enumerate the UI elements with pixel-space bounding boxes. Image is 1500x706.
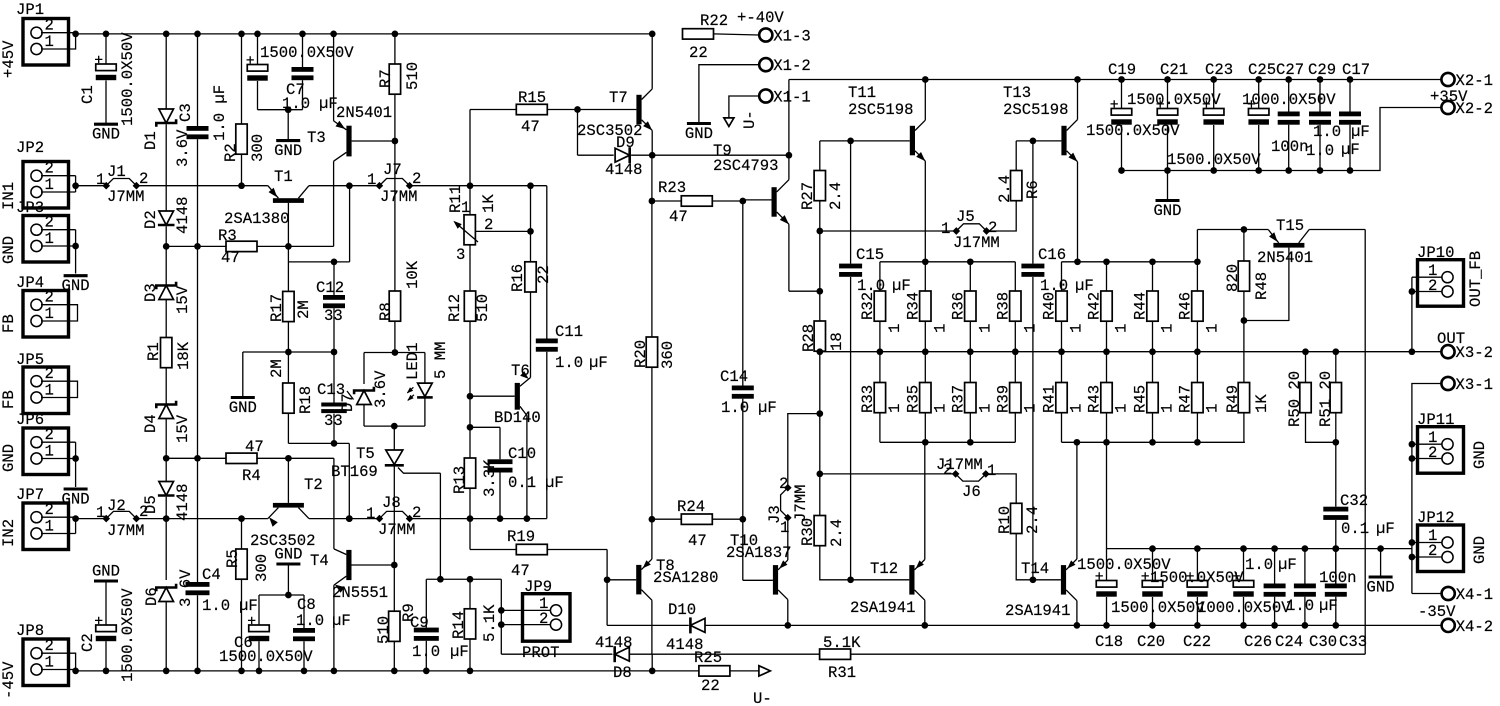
wire to D5 — [165, 458, 167, 481]
junction C18 / V- rail — [1103, 622, 1110, 629]
svg-text:1: 1 — [1159, 404, 1177, 413]
svg-text:18K: 18K — [175, 341, 193, 370]
ground JP3 — [64, 274, 88, 277]
junction T11 emitter / bank1 top wire — [922, 258, 929, 265]
wire to D6 — [165, 519, 167, 580]
svg-text:J7MM: J7MM — [107, 188, 144, 206]
terminal X1-1 — [759, 89, 772, 102]
junction R46 / OUT rail — [1194, 348, 1201, 355]
svg-text:R37: R37 — [949, 385, 967, 413]
capacitor C4 — [186, 582, 210, 595]
resistor R16 — [525, 262, 536, 292]
svg-text:T7: T7 — [609, 89, 628, 107]
wire C15 top lead (crosses J5 wire) — [850, 141, 852, 264]
junction C2 / -45V rail — [103, 668, 110, 675]
svg-text:µF: µF — [1341, 141, 1360, 159]
svg-text:1: 1 — [367, 171, 376, 189]
wire C26 top lead — [1243, 549, 1245, 581]
transistor T2 (2SC3502 NPN) — [268, 458, 309, 526]
wire C18 bottom lead — [1106, 597, 1108, 625]
diode D6 (3.6V zener) — [156, 584, 176, 602]
svg-text:47: 47 — [688, 532, 707, 550]
wire R28 top lead — [819, 291, 821, 321]
wire J8 pad2 right — [410, 518, 547, 520]
wire +40V collector rail — [789, 79, 1442, 81]
wire PROT horizontal — [426, 578, 501, 580]
wire down to D10 wire — [606, 580, 608, 626]
wire C33 bottom lead — [1335, 597, 1337, 626]
wire C19 top lead — [1121, 80, 1123, 109]
svg-text:1: 1 — [886, 404, 904, 413]
svg-text:2.4: 2.4 — [996, 175, 1014, 203]
resistor R30 — [814, 516, 825, 546]
junction T7 / rail — [649, 31, 656, 38]
wire R17/C12 ground wire — [243, 351, 334, 353]
svg-text:C22: C22 — [1183, 633, 1211, 651]
wire to C4 (crosses IN2) — [197, 458, 199, 582]
wire bank1 top wire — [880, 261, 1015, 263]
wire column — [469, 396, 471, 427]
wire cap bank gnd wire to X2-2 — [1122, 108, 1442, 171]
wire OUT rail — [820, 351, 1442, 353]
wire T13 emitter to bank2 top — [1077, 162, 1079, 262]
wire R12 bottom to T6 base — [469, 321, 471, 396]
jumper J7 — [379, 179, 409, 186]
transistor T3 (2N5401 PNP) — [334, 121, 395, 162]
junction C30 / V- rail — [1302, 622, 1309, 629]
svg-text:1: 1 — [45, 305, 54, 323]
svg-text:1: 1 — [1021, 324, 1039, 333]
wire C13 bottom lead — [333, 414, 335, 444]
svg-text:T4: T4 — [310, 552, 329, 570]
wire +45V rail — [76, 33, 653, 35]
supply arrow U- at X1-1 — [724, 118, 734, 127]
wire D7 top lead — [363, 353, 365, 385]
svg-text:R38: R38 — [994, 292, 1012, 320]
svg-text:X4-1: X4-1 — [1456, 586, 1493, 604]
ground JP6 — [64, 487, 88, 490]
svg-text:R39: R39 — [994, 385, 1012, 413]
svg-text:FB: FB — [0, 314, 18, 333]
svg-text:R42: R42 — [1086, 292, 1104, 320]
wire to -45V rail — [651, 654, 653, 671]
wire C15 bottom to T12 base (crosses rails) — [850, 277, 852, 580]
junction C23 / gnd wire — [1210, 167, 1217, 174]
junction R8 / D7-LED1 loop — [392, 349, 399, 356]
resistor R40 — [1056, 291, 1067, 321]
wire T14 emitter to bank2 bottom — [1076, 442, 1078, 559]
wire T12 emitter to bank1 bottom — [924, 442, 926, 559]
svg-text:X1-2: X1-2 — [773, 57, 810, 75]
svg-text:X3-1: X3-1 — [1456, 376, 1493, 394]
resistor R2 — [236, 124, 247, 154]
svg-text:J1: J1 — [107, 163, 126, 181]
resistor R15 — [516, 104, 547, 114]
svg-text:U-: U- — [753, 690, 772, 706]
wire R18 bottom lead — [287, 413, 289, 443]
junction column / R4 wire — [194, 455, 201, 462]
wire C16 top lead (crosses J5 wire) — [1032, 141, 1034, 264]
resistor R24 — [681, 514, 712, 524]
ground C7 — [276, 139, 300, 142]
svg-text:C23: C23 — [1205, 61, 1233, 79]
transistor T1 (2SA1380 PNP) — [268, 186, 309, 247]
wire J3 pad2 to driver column — [788, 414, 820, 488]
wire C14 column lower — [742, 399, 744, 520]
svg-text:R16: R16 — [509, 264, 527, 292]
ground cap bank top — [1156, 199, 1180, 202]
wire C1 bottom lead — [105, 81, 107, 125]
wire R35 bottom lead — [924, 413, 926, 443]
wire C32 bottom lead — [1335, 520, 1337, 588]
wire R37 bottom lead — [969, 413, 971, 443]
svg-text:X2-2: X2-2 — [1456, 100, 1493, 118]
connector JP5 (FB) — [23, 367, 69, 414]
wire loop bottom — [364, 425, 425, 427]
svg-text:BD140: BD140 — [494, 409, 541, 427]
wire JP3 pins to ground — [75, 230, 77, 274]
svg-text:1: 1 — [1021, 404, 1039, 413]
svg-text:OUT: OUT — [1437, 330, 1465, 348]
junction C24 / V- rail — [1271, 622, 1278, 629]
wire T5 gate to PROT wire — [439, 473, 441, 579]
wire C21 bottom lead — [1167, 125, 1169, 171]
resistor R38 — [1010, 291, 1021, 321]
wire IN2 to J2 pad1 — [76, 518, 107, 520]
junction C33 / gnd wire — [1332, 545, 1339, 552]
svg-text:C11: C11 — [555, 323, 583, 341]
svg-text:C15: C15 — [856, 246, 884, 264]
svg-text:1: 1 — [45, 176, 54, 194]
junction R51 / OUT rail — [1332, 348, 1339, 355]
junction C19 / gnd wire — [1118, 167, 1125, 174]
svg-text:2SA1380: 2SA1380 — [224, 210, 290, 228]
wire C12 bottom lead — [333, 308, 335, 352]
junction T3 emitter / rail — [330, 31, 337, 38]
svg-text:2: 2 — [988, 219, 997, 237]
wire bank2 bottom wire — [1062, 441, 1245, 443]
junction JP10 / OUT rail — [1409, 348, 1416, 355]
wire R2 top lead — [241, 34, 243, 124]
junction JP6 pin1 — [72, 455, 79, 462]
connector JP12 (GND) — [1418, 525, 1464, 572]
junction C29 / +35V rail — [1317, 76, 1324, 83]
wire -45V rail (left of R25) — [76, 670, 699, 672]
svg-text:1: 1 — [1159, 324, 1177, 333]
wire R7 top lead — [394, 34, 396, 64]
junction D9 wire / X1 riser / T9 collector — [786, 152, 793, 159]
junction R27-R28 — [816, 288, 823, 295]
svg-text:510: 510 — [404, 62, 422, 90]
diode D2 (4148) — [158, 211, 175, 225]
svg-text:2: 2 — [45, 426, 54, 444]
svg-text:R47: R47 — [1176, 385, 1194, 413]
svg-text:R3: R3 — [218, 227, 237, 245]
junction C33 / V- rail — [1332, 622, 1339, 629]
svg-text:2: 2 — [412, 504, 421, 522]
wire R9 bottom lead — [393, 641, 395, 671]
junction R4 / T2 base — [285, 455, 292, 462]
wire R45 bottom lead — [1152, 413, 1154, 443]
svg-text:R23: R23 — [658, 179, 686, 197]
wire R47 top lead — [1196, 352, 1198, 383]
svg-text:300: 300 — [253, 554, 271, 582]
svg-text:1: 1 — [780, 519, 789, 537]
wire R25 to V- arrow — [730, 670, 759, 672]
svg-text:D8: D8 — [613, 664, 632, 682]
svg-text:1: 1 — [45, 442, 54, 460]
wire R31 right wire — [850, 653, 1365, 655]
wire C3 top lead — [197, 34, 199, 126]
svg-text:J7: J7 — [383, 161, 402, 179]
transistor T4 (2N5551 NPN) — [334, 549, 394, 593]
svg-text:R32: R32 — [859, 292, 877, 320]
wire J1 pad2 to T1 emitter — [136, 185, 268, 187]
resistor R9 — [389, 611, 400, 641]
svg-text:100n: 100n — [1319, 569, 1356, 587]
wire JP10 pin2 — [1412, 291, 1442, 293]
junction JP2 / IN1 wire — [72, 182, 79, 189]
wire T4 collector riser (crosses IN2) — [333, 458, 335, 549]
wire JP10 pin1 — [1412, 276, 1442, 278]
svg-text:2: 2 — [45, 214, 54, 232]
wire D8 to T8 collector — [630, 653, 653, 655]
svg-text:R41: R41 — [1041, 385, 1059, 413]
wire R20 bottom to R24 — [651, 367, 653, 519]
wire R10 to T14 base — [1016, 534, 1061, 580]
connector JP6 (GND) — [23, 428, 69, 475]
diode D1 (3.6V zener) — [156, 109, 176, 127]
wire R39 bottom lead — [1014, 413, 1016, 443]
svg-text:C19: C19 — [1108, 61, 1136, 79]
wire JP1 pin2 to +45V rail — [41, 32, 76, 34]
svg-text:JP5: JP5 — [16, 351, 44, 369]
svg-text:1: 1 — [1203, 324, 1221, 333]
junction C4 / -45V rail — [194, 668, 201, 675]
junction R7 / +45V rail — [392, 31, 399, 38]
wire R23 right lead — [712, 200, 743, 202]
junction riser / IN2 wire — [346, 515, 353, 522]
svg-text:2: 2 — [45, 160, 54, 178]
svg-text:1: 1 — [1113, 404, 1131, 413]
svg-text:R31: R31 — [828, 664, 856, 682]
svg-text:1: 1 — [987, 462, 996, 480]
svg-text:µF: µF — [319, 95, 338, 113]
ground R17/C12 — [231, 396, 255, 399]
junction T12 / V- rail — [921, 622, 928, 629]
resistor R45 — [1147, 383, 1158, 413]
wire R44 bottom lead — [1152, 321, 1154, 352]
resistor R6 — [1011, 171, 1022, 201]
junction T13 emitter / bank2 top wire — [1074, 258, 1081, 265]
wire R34 top lead — [924, 262, 926, 291]
wire T5 cathode to R9 (crosses J8) — [393, 465, 395, 611]
resistor R42 — [1101, 291, 1112, 321]
svg-text:1000.0X50V: 1000.0X50V — [1197, 599, 1291, 617]
junction riser to C18 wire — [1103, 439, 1110, 446]
wire C16 bottom to T14 base (crosses rails) — [1032, 277, 1034, 580]
svg-text:2: 2 — [1428, 277, 1437, 295]
resistor R28 — [814, 321, 825, 351]
wire D1-D2 — [165, 125, 167, 212]
jumper J3 — [781, 488, 788, 518]
svg-text:R8: R8 — [377, 302, 395, 321]
resistor R22 — [683, 29, 714, 39]
terminal X3-2 — [1441, 345, 1454, 358]
svg-text:1K: 1K — [1253, 394, 1271, 413]
wire JP3 pin1 — [41, 245, 76, 247]
svg-text:1500.0X50V: 1500.0X50V — [1127, 91, 1221, 109]
wire down to T8 base — [606, 550, 608, 580]
wire JP4 pin bracket — [41, 305, 78, 321]
svg-text:R19: R19 — [507, 528, 535, 546]
svg-text:R20: R20 — [632, 340, 650, 368]
wire T9 collector — [788, 155, 790, 180]
wire R36 bottom lead — [969, 321, 971, 352]
svg-text:GND: GND — [274, 546, 302, 564]
jumper J6 — [956, 474, 986, 481]
wire R14 top lead — [469, 579, 471, 609]
wire C3 to R3 wire — [197, 139, 199, 246]
svg-text:4148: 4148 — [666, 636, 703, 654]
junction C23 / +35V rail — [1210, 76, 1217, 83]
diode D10 (4148) — [690, 617, 705, 633]
svg-text:X4-2: X4-2 — [1456, 618, 1493, 636]
connector JP2 (IN1) — [23, 162, 69, 209]
wire R45 top lead — [1152, 352, 1154, 383]
svg-text:PROT: PROT — [522, 644, 559, 662]
junction R2 / +45V rail — [238, 31, 245, 38]
junction C12 / ground wire — [331, 349, 338, 356]
wire R27 top lead — [819, 141, 821, 171]
wire JP5 pin bracket — [41, 381, 78, 397]
svg-text:510: 510 — [474, 294, 492, 322]
wire C7 top lead — [257, 34, 259, 65]
resistor R51 — [1330, 383, 1341, 413]
terminal X1-2 — [759, 58, 772, 71]
wire to R19 — [469, 519, 471, 550]
svg-text:J5: J5 — [956, 208, 975, 226]
svg-text:+-40V: +-40V — [737, 9, 784, 27]
junction C27 / gnd wire — [1285, 167, 1292, 174]
wire C30 bottom lead — [1304, 597, 1306, 626]
svg-text:GND: GND — [1367, 579, 1395, 597]
junction C8 / rail — [301, 668, 308, 675]
wire R42 top lead — [1106, 262, 1108, 291]
wire R15 left lead — [470, 109, 516, 111]
wire JP6 pin1 — [41, 458, 76, 460]
transistor T8 (2SA1280 PNP) — [607, 559, 652, 600]
connector JP3 (GND) — [23, 216, 69, 263]
junction gnd / C6-C8 wire — [285, 592, 292, 599]
wire R3 right — [257, 245, 288, 247]
wire T7 collector to +45V rail — [651, 34, 653, 89]
wire R50 top lead — [1305, 352, 1307, 383]
junction JP12 pin2 / GND wire — [1409, 554, 1416, 561]
wire stub — [393, 352, 395, 354]
wire C29 top lead — [1319, 80, 1321, 112]
junction T7 emitter / D9 wire — [649, 152, 656, 159]
wire T12 collector to V- rail — [924, 600, 926, 625]
junction T12 emitter / bank1 bottom — [922, 439, 929, 446]
svg-text:C24: C24 — [1275, 633, 1303, 651]
svg-text:1: 1 — [96, 171, 105, 189]
svg-text:R36: R36 — [949, 292, 967, 320]
junction C17 / +35V rail — [1347, 76, 1354, 83]
wire JP10 to OUT rail — [1411, 277, 1413, 352]
wire R5 bottom lead — [241, 579, 243, 671]
svg-text:15V: 15V — [174, 414, 192, 443]
svg-text:R33: R33 — [859, 385, 877, 413]
wire R19 right lead — [547, 549, 607, 551]
capacitor C30 — [1294, 584, 1316, 597]
svg-text:µF: µF — [758, 399, 777, 417]
svg-text:C4: C4 — [202, 566, 221, 584]
wire GND wire bottom bank — [1107, 548, 1412, 550]
junction R36 / bank1 top wire — [967, 258, 974, 265]
svg-text:R43: R43 — [1086, 385, 1104, 413]
junction C22 / V- rail — [1194, 622, 1201, 629]
junction T14 / V- rail — [1074, 622, 1081, 629]
svg-text:-45V: -45V — [0, 661, 18, 699]
wire R8 bottom lead — [394, 321, 396, 352]
capacitor C20 (polarized) — [1142, 572, 1163, 597]
capacitor C8 — [293, 628, 315, 641]
svg-text:2N5401: 2N5401 — [1257, 249, 1313, 267]
wire T15 collector wire — [1309, 229, 1365, 231]
diode D3 (15V zener) — [156, 282, 176, 300]
wire R32 top lead — [879, 262, 881, 291]
junction C15 column / T12 base wire — [847, 576, 854, 583]
wire PROT to D8 — [501, 653, 612, 655]
wire C24 bottom lead — [1274, 597, 1276, 626]
wire C27 bottom lead — [1288, 125, 1290, 171]
wire R41 top lead — [1061, 352, 1063, 383]
wire C17 top lead — [1349, 80, 1351, 112]
junction D5 / IN2 wire — [163, 515, 170, 522]
resistor R31 — [820, 649, 851, 659]
wire JP7 pin1 — [41, 533, 76, 535]
transistor T6 (BD140 PNP) — [470, 371, 531, 415]
wire gnd stem — [1167, 171, 1169, 201]
svg-text:T6: T6 — [511, 362, 530, 380]
junction C20 / V- rail — [1149, 622, 1156, 629]
svg-text:47: 47 — [521, 118, 540, 136]
junction D4 / R4 wire — [163, 455, 170, 462]
svg-text:FB: FB — [0, 390, 18, 409]
svg-text:1: 1 — [45, 230, 54, 248]
svg-text:GND: GND — [1471, 536, 1489, 564]
wire R49 bottom lead — [1243, 413, 1245, 443]
resistor R35 — [920, 383, 931, 413]
svg-text:1: 1 — [366, 505, 375, 523]
junction cap / +45V rail — [299, 31, 306, 38]
svg-text:1: 1 — [45, 33, 54, 51]
junction / J6 wire — [816, 471, 823, 478]
wire T8 collector down — [651, 600, 653, 654]
svg-text:J7MM: J7MM — [107, 522, 144, 540]
wire R5 top lead — [241, 519, 243, 549]
svg-text:GND: GND — [62, 491, 90, 509]
junction T5 gate / PROT wire — [437, 576, 444, 583]
wire R51 bottom lead — [1335, 413, 1337, 443]
svg-text:µF: µF — [589, 354, 608, 372]
svg-text:T5: T5 — [356, 445, 375, 463]
resistor R23 — [681, 196, 712, 206]
resistor R39 — [1010, 383, 1021, 413]
svg-text:R44: R44 — [1132, 292, 1150, 320]
junction R42 / OUT rail — [1103, 348, 1110, 355]
